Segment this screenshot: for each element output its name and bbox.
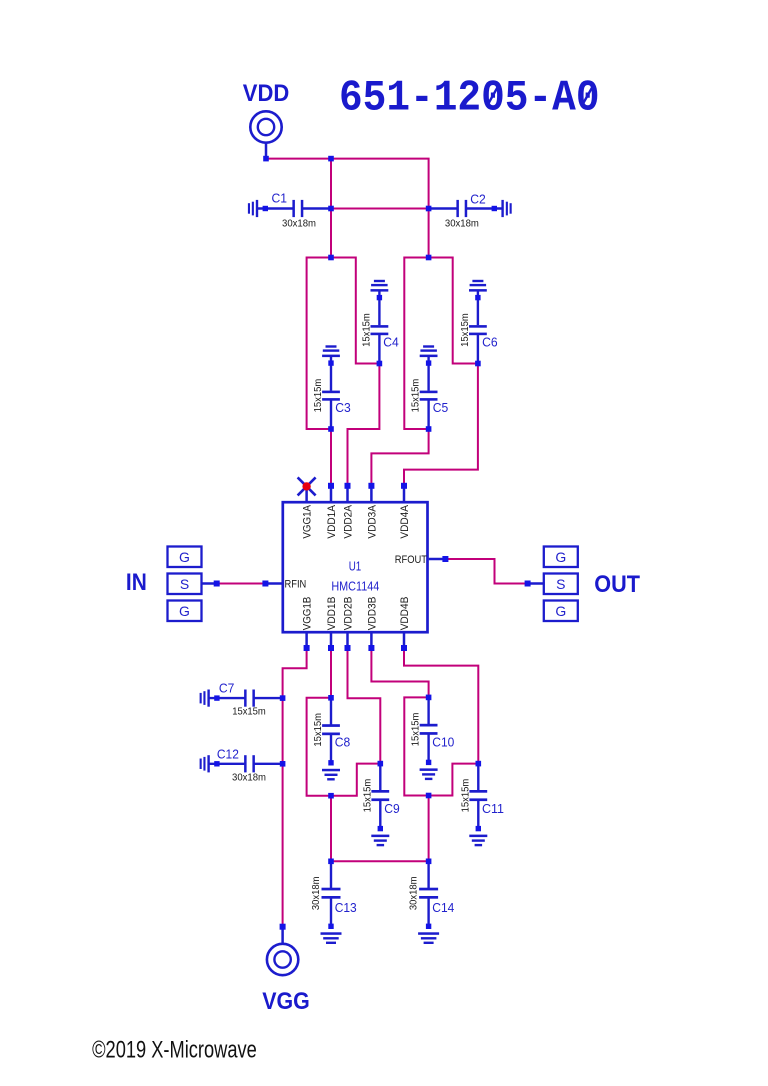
svg-text:30x18m: 30x18m xyxy=(282,218,316,230)
svg-text:VDD1B: VDD1B xyxy=(326,597,338,631)
svg-text:C3: C3 xyxy=(335,401,351,415)
svg-text:©2019 X-Microwave: ©2019 X-Microwave xyxy=(92,1037,257,1064)
svg-text:15x15m: 15x15m xyxy=(459,313,471,347)
svg-text:C4: C4 xyxy=(383,335,399,349)
svg-text:15x15m: 15x15m xyxy=(232,706,266,718)
svg-text:IN: IN xyxy=(126,569,147,596)
svg-text:G: G xyxy=(555,603,566,619)
svg-text:S: S xyxy=(556,576,565,592)
svg-text:VDD4B: VDD4B xyxy=(399,597,411,631)
svg-text:C5: C5 xyxy=(433,401,449,415)
svg-text:15x15m: 15x15m xyxy=(312,379,324,413)
svg-text:C12: C12 xyxy=(217,747,239,761)
svg-text:G: G xyxy=(179,603,190,619)
svg-text:30x18m: 30x18m xyxy=(408,876,420,910)
svg-text:15x15m: 15x15m xyxy=(459,779,471,813)
svg-text:VDD2B: VDD2B xyxy=(342,597,354,631)
svg-text:30x18m: 30x18m xyxy=(232,771,266,783)
svg-text:30x18m: 30x18m xyxy=(445,218,479,230)
svg-text:C7: C7 xyxy=(219,682,235,696)
svg-text:VDD: VDD xyxy=(243,80,290,107)
svg-text:VDD3B: VDD3B xyxy=(366,597,378,631)
svg-text:OUT: OUT xyxy=(594,571,640,598)
svg-text:C13: C13 xyxy=(335,901,357,915)
svg-text:C9: C9 xyxy=(384,802,400,816)
svg-text:G: G xyxy=(555,549,566,565)
svg-text:RFIN: RFIN xyxy=(285,578,307,590)
svg-text:30x18m: 30x18m xyxy=(310,876,322,910)
svg-text:15x15m: 15x15m xyxy=(360,313,372,347)
svg-text:15x15m: 15x15m xyxy=(312,713,324,747)
svg-text:15x15m: 15x15m xyxy=(361,779,373,813)
svg-text:RFOUT: RFOUT xyxy=(395,554,428,566)
svg-text:VDD1A: VDD1A xyxy=(326,504,338,538)
svg-text:G: G xyxy=(179,549,190,565)
svg-text:15x15m: 15x15m xyxy=(410,379,422,413)
svg-text:S: S xyxy=(180,576,189,592)
svg-text:VGG1A: VGG1A xyxy=(302,504,314,538)
svg-text:VDD3A: VDD3A xyxy=(366,504,378,538)
svg-text:HMC1144: HMC1144 xyxy=(331,579,379,593)
svg-text:C8: C8 xyxy=(335,736,351,750)
svg-text:C1: C1 xyxy=(272,192,288,206)
svg-text:C14: C14 xyxy=(432,901,454,915)
svg-text:15x15m: 15x15m xyxy=(410,712,422,746)
svg-text:C10: C10 xyxy=(432,736,454,750)
svg-text:C6: C6 xyxy=(482,335,498,349)
svg-text:C2: C2 xyxy=(470,193,486,207)
svg-text:U1: U1 xyxy=(349,560,362,574)
svg-text:651-1205-A0: 651-1205-A0 xyxy=(339,74,600,124)
svg-text:VGG: VGG xyxy=(262,988,310,1015)
svg-text:C11: C11 xyxy=(482,802,504,816)
svg-text:VGG1B: VGG1B xyxy=(302,597,314,631)
svg-text:VDD2A: VDD2A xyxy=(342,504,354,538)
svg-text:VDD4A: VDD4A xyxy=(399,504,411,538)
